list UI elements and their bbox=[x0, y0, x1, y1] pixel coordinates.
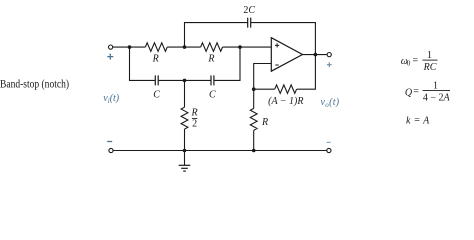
svg-text:2C: 2C bbox=[243, 5, 255, 16]
svg-text:=: = bbox=[413, 55, 419, 66]
formula k = A bbox=[406, 115, 430, 126]
wire: R1 to R2 (through node B) bbox=[167, 46, 200, 48]
ground bbox=[179, 151, 191, 172]
wire: R/2 to bottom rail bbox=[184, 129, 186, 150]
plus mark at input bbox=[107, 54, 113, 60]
wire: node D down to R/2 bbox=[184, 80, 186, 107]
capacitor C2 bbox=[211, 75, 214, 85]
svg-text:4 − 2A: 4 − 2A bbox=[423, 93, 451, 104]
svg-text:vo(t): vo(t) bbox=[321, 97, 340, 109]
minus mark at bottom-left bbox=[107, 141, 112, 143]
input terminal bbox=[109, 45, 113, 49]
op-amp minus sign bbox=[275, 64, 278, 66]
formula omega0 = 1/RC bbox=[401, 50, 438, 73]
svg-text:Band-stop (notch): Band-stop (notch) bbox=[0, 76, 69, 90]
node F (feedback junction) bbox=[252, 87, 256, 91]
resistor (A-1)R bbox=[275, 85, 297, 94]
wire: C1 to C2 (through node D) bbox=[158, 79, 211, 81]
svg-text:C: C bbox=[153, 89, 160, 100]
op-amp plus sign bbox=[275, 43, 279, 47]
svg-text:Q: Q bbox=[405, 88, 413, 99]
bottom-left terminal bbox=[109, 148, 113, 152]
minus mark at bottom-right bbox=[327, 141, 331, 143]
resistor R/2 (vertical) bbox=[181, 107, 188, 129]
bottom-right terminal bbox=[327, 148, 331, 152]
plus mark at output bbox=[327, 62, 332, 67]
svg-text:k: k bbox=[406, 115, 411, 126]
wire: bottom rail bbox=[113, 150, 327, 152]
wire: R2 to op-amp noninverting input bbox=[223, 46, 272, 48]
svg-text:1: 1 bbox=[433, 81, 438, 92]
wire: node B up to top rail and to 2C bbox=[185, 23, 248, 47]
svg-text:vi(t): vi(t) bbox=[103, 93, 120, 105]
svg-text:(A − 1)R: (A − 1)R bbox=[268, 96, 303, 107]
wire: feedback node to resistor (A-1)R bbox=[254, 88, 275, 90]
wire: feedback node down to R (vertical) bbox=[253, 89, 255, 108]
op-amp U1 bbox=[271, 38, 302, 71]
svg-text:=: = bbox=[414, 115, 420, 126]
resistor R1 bbox=[145, 43, 167, 52]
wire: op-amp output to output terminal bbox=[303, 54, 328, 56]
wire: (A-1)R to output node vertical bbox=[297, 55, 316, 90]
capacitor 2C bbox=[248, 18, 251, 28]
resistor R (vertical, to ground rail) bbox=[250, 108, 257, 130]
wire: R to bottom rail bbox=[253, 130, 255, 150]
wire: input to R1 (main line, through node A) bbox=[113, 46, 146, 48]
node G (ground rail junction) bbox=[183, 149, 187, 153]
capacitor C1 bbox=[155, 75, 158, 85]
node B (between R1 and R2) bbox=[183, 45, 187, 49]
formula Q = 1/(4-2A) bbox=[405, 81, 451, 104]
svg-text:=: = bbox=[413, 86, 419, 97]
node A (input junction) bbox=[128, 45, 132, 49]
svg-text:R: R bbox=[152, 54, 159, 65]
svg-text:RC: RC bbox=[423, 62, 437, 73]
svg-text:R: R bbox=[207, 54, 214, 65]
wire: inverting input to feedback node bbox=[254, 64, 272, 90]
resistor R2 bbox=[201, 43, 223, 52]
output terminal bbox=[327, 53, 331, 57]
node O (output junction) bbox=[314, 53, 318, 57]
svg-text:C: C bbox=[209, 89, 216, 100]
svg-text:0: 0 bbox=[407, 60, 411, 68]
svg-text:1: 1 bbox=[427, 50, 432, 61]
svg-text:R: R bbox=[191, 108, 198, 119]
svg-text:A: A bbox=[422, 115, 430, 126]
svg-text:2: 2 bbox=[192, 119, 197, 130]
wire: C2 up to node C on main line bbox=[214, 47, 240, 80]
wire: node A down to lower branch and to C1 bbox=[130, 47, 156, 80]
node D (between C1 and C2) bbox=[183, 79, 187, 83]
svg-text:R: R bbox=[261, 117, 268, 128]
node C (right end of C branch) bbox=[238, 45, 242, 49]
label R/2 fraction bbox=[191, 108, 198, 130]
wire: 2C to output node (top rail right, down to node O) bbox=[251, 23, 316, 55]
node H (R bottom rail junction) bbox=[252, 149, 256, 153]
